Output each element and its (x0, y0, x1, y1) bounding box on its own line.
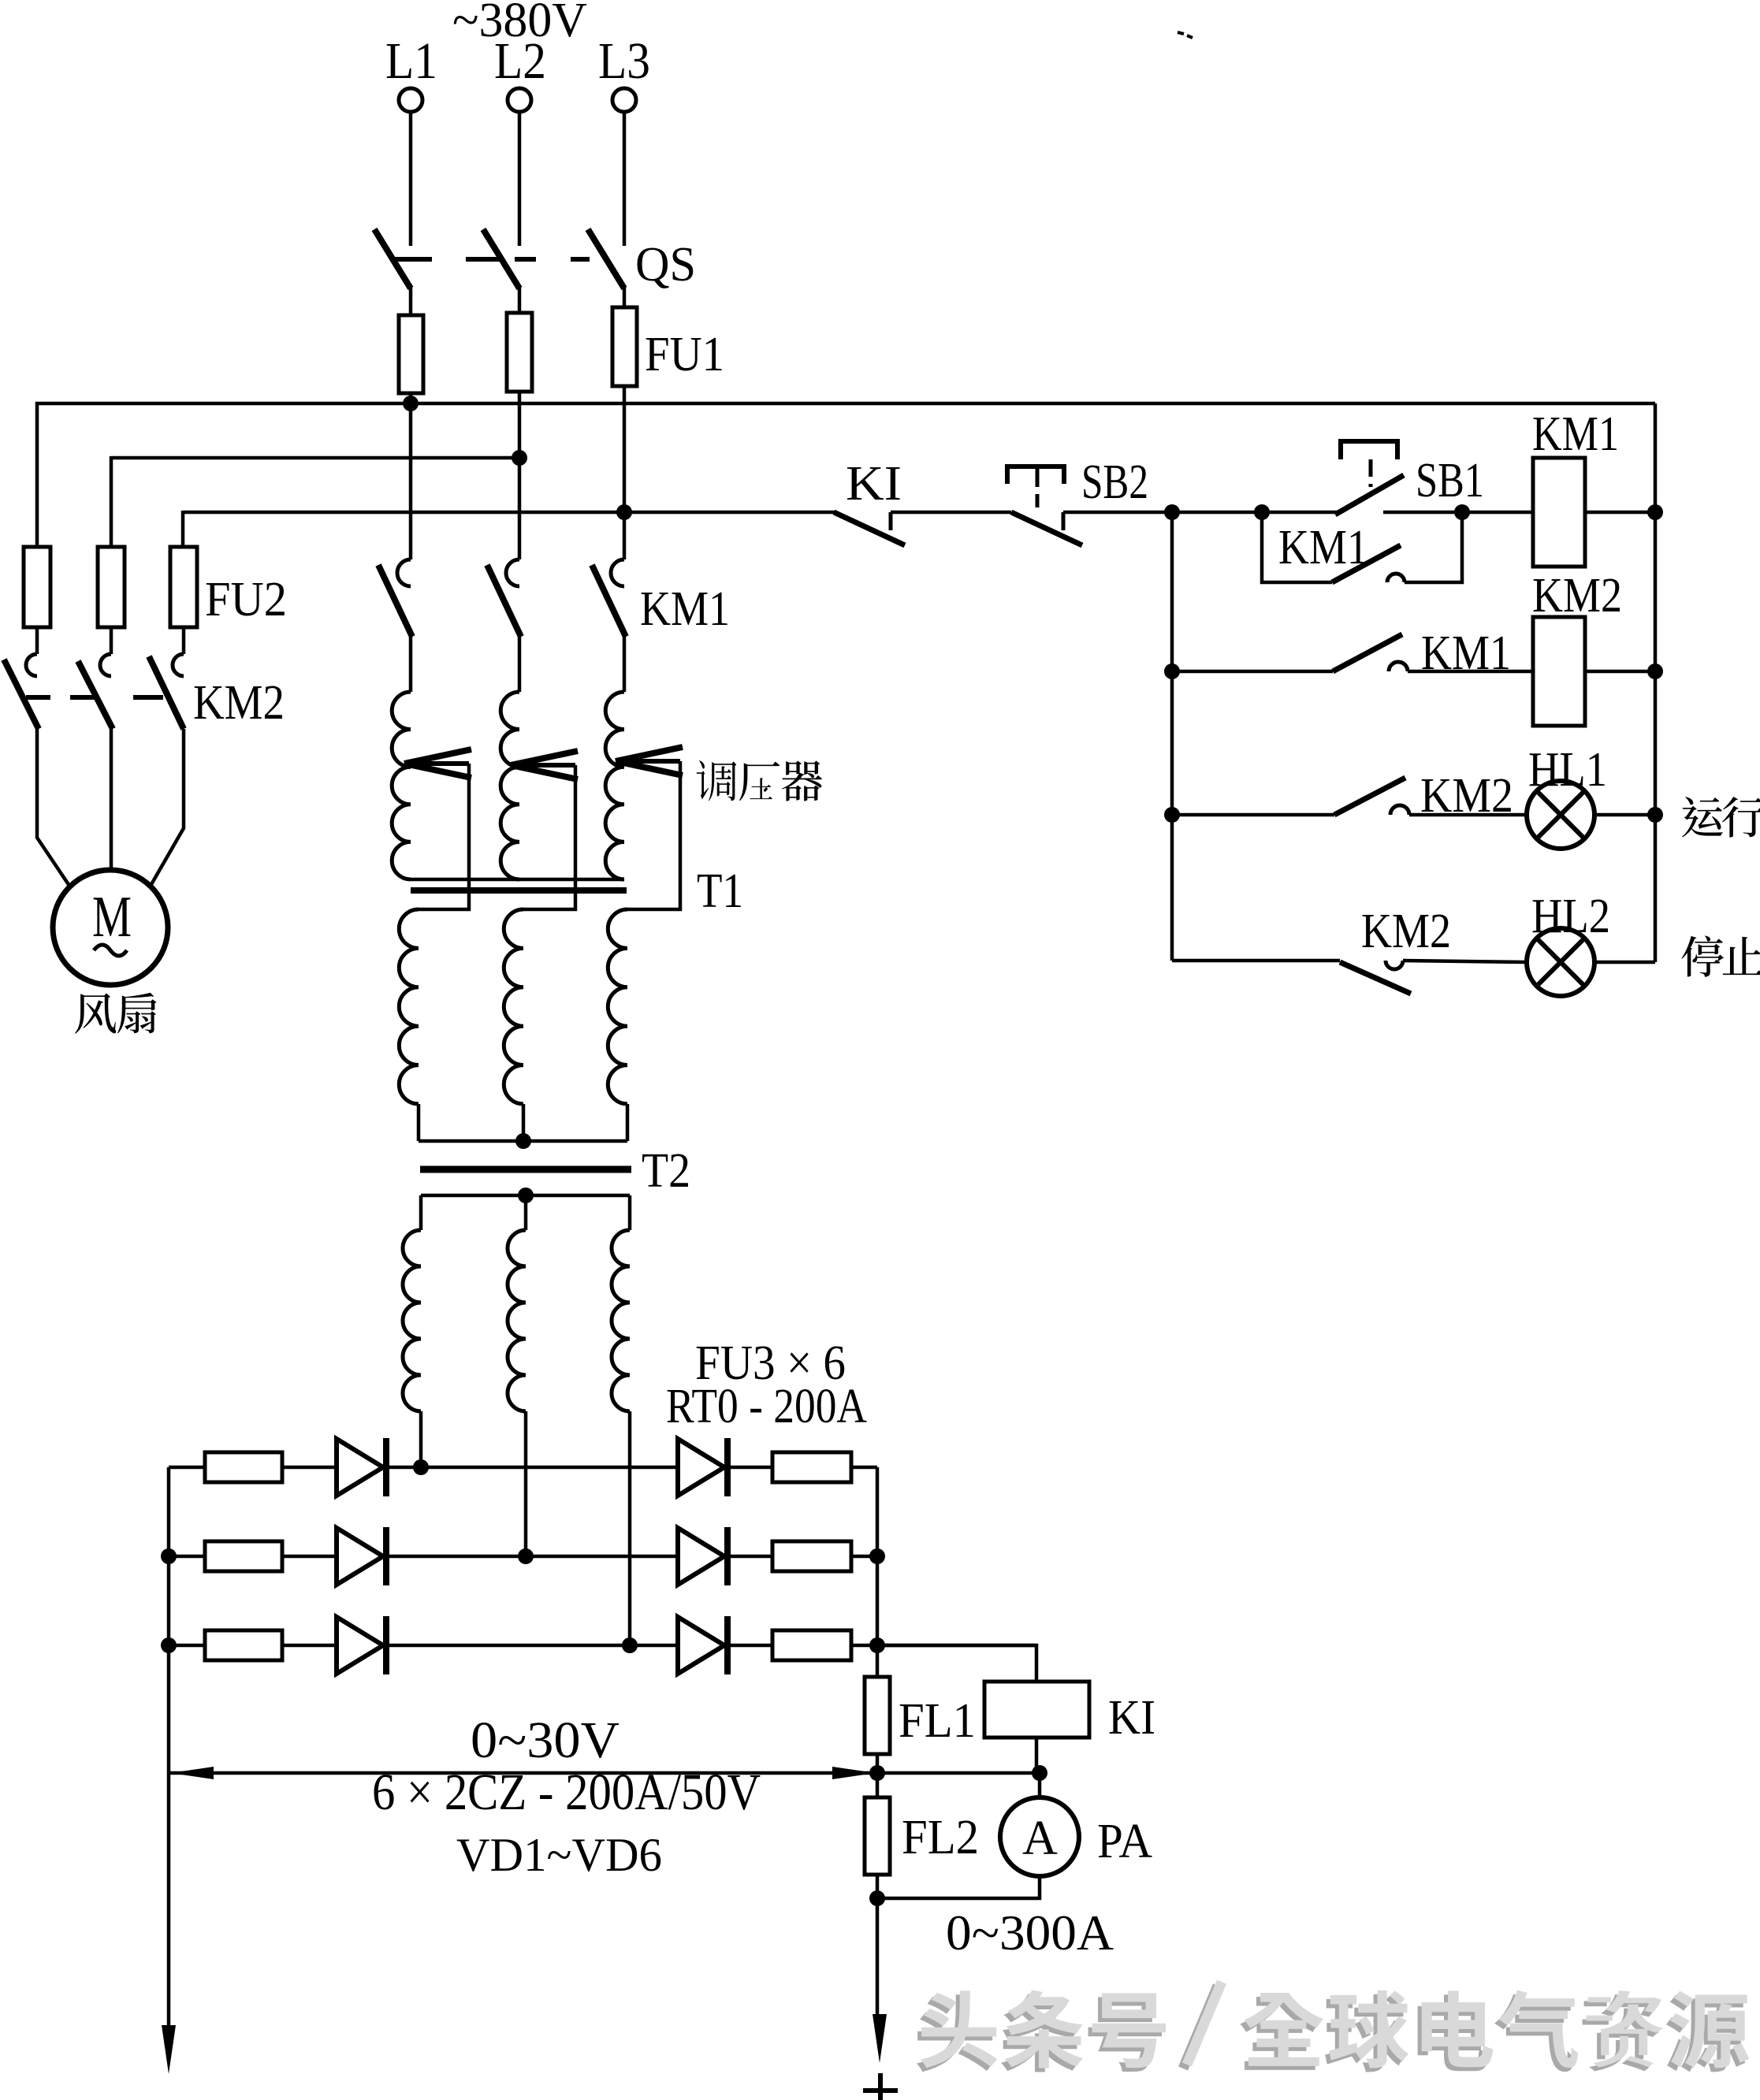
diode VD5 right (678, 1528, 724, 1585)
label 运行 run (1682, 797, 1723, 837)
contact KM2 pole1 hook (26, 654, 37, 676)
rung4: KM2 NC + HL2 (1172, 959, 1340, 963)
contact KM1 pole2 hook (506, 559, 519, 586)
rung2: KM1 NO contact + KM2 coil (1164, 663, 1180, 679)
linkage KM2 dashed (26, 695, 50, 700)
wire L1 drop (409, 112, 413, 246)
wire QS3 to FU1 (623, 285, 627, 307)
contact KM1 pole3 blade (592, 565, 626, 637)
svg-text:RT0 - 200A: RT0 - 200A (666, 1380, 867, 1433)
coil KM1 (1533, 458, 1585, 567)
svg-text:KM1: KM1 (1278, 521, 1368, 574)
svg-text:M: M (92, 885, 132, 950)
fuse FU1 pole2 (518, 313, 522, 392)
wire KM1 coil to right bus (1585, 511, 1655, 515)
T1 wiper drop 1 (419, 764, 469, 909)
diode VD1 left (337, 1439, 383, 1496)
T2 coil 1 (419, 1195, 423, 1230)
wire KM2-1 to motor (37, 729, 69, 886)
wire KM1-3 to T1 coil (623, 635, 627, 692)
contact KM2 pole3 blade (149, 656, 184, 729)
junction PA branch (1032, 1765, 1047, 1781)
label fan 风扇 (75, 994, 116, 1034)
contact KM2 pole2 blade (78, 661, 113, 729)
T1 secondary coil 1 (399, 909, 419, 1104)
wire SB1 to KM1 coil (1383, 511, 1533, 515)
svg-text:SB1: SB1 (1416, 454, 1484, 507)
diode VD4 right (678, 1439, 724, 1496)
lamp HL2 (1527, 928, 1594, 996)
svg-text:0~300A: 0~300A (946, 1905, 1114, 1961)
junction right bus rung2 (1647, 663, 1663, 679)
wire KI coil down (1035, 1738, 1039, 1773)
measure line 0~30V (169, 1771, 877, 1775)
fuse row 2 left (205, 1541, 282, 1571)
wire bus2 left drop to FU2-2 (110, 456, 113, 547)
svg-text:6 × 2CZ - 200A/50V: 6 × 2CZ - 200A/50V (372, 1764, 761, 1821)
label 停止 stop (1682, 935, 1725, 976)
rectifier row 2 wire (169, 1555, 877, 1559)
svg-text:FL2: FL2 (902, 1811, 979, 1864)
wire FL2 down (876, 1875, 880, 2027)
wire KM2-3 to motor (151, 729, 184, 886)
T1 wiper drop 2 (523, 765, 575, 909)
wire QS1 to FU1 (409, 285, 413, 315)
svg-text:VD1~VD6: VD1~VD6 (456, 1829, 662, 1881)
T2 secondary top bus (421, 1194, 630, 1198)
svg-text:L3: L3 (598, 32, 650, 90)
junction T2 top (518, 1188, 534, 1203)
coil KM2 (1533, 617, 1585, 726)
junction FL1/FL2 node (869, 1765, 885, 1781)
wire row3 to KI coil (877, 1645, 1036, 1682)
wire T2-2 to row2 (524, 1411, 528, 1556)
svg-text:FU2: FU2 (205, 573, 287, 626)
transformer T1 primary coil 3 (605, 692, 624, 879)
fuse FU2 pole2 (110, 547, 113, 654)
svg-text:KM1: KM1 (640, 582, 730, 636)
lamp HL1 (1527, 781, 1594, 849)
rung3: KM2 NO + HL1 (1164, 807, 1180, 823)
svg-text:KI: KI (846, 457, 902, 511)
wire SB2 to node (1063, 511, 1262, 515)
T1 primary common line (411, 878, 624, 882)
wire L2 column to KM1 (518, 392, 522, 559)
svg-text:QS: QS (635, 238, 696, 292)
junction row1/T2-1 (413, 1459, 429, 1475)
fuse row 1 right (772, 1452, 851, 1482)
T1 core (411, 887, 627, 894)
switch QS pole 2 blade (483, 229, 519, 288)
T1 secondary coil 2 (504, 909, 523, 1104)
fuse row 3 right (772, 1630, 851, 1660)
junction SB1 left (1254, 504, 1270, 520)
contact KM2 NC (rung4) (1340, 962, 1411, 994)
contact KM1 aux (self-hold) (1332, 545, 1401, 582)
contact KM1 pole2 blade (487, 565, 521, 637)
junction bus2/L2 column (512, 450, 527, 466)
switch QS pole 1 blade (374, 229, 411, 288)
diode VD2 left (337, 1528, 383, 1585)
wire ammeter bottom (877, 1876, 1040, 1898)
contact KM2 pole2 hook (100, 654, 111, 676)
svg-text:HL1: HL1 (1528, 743, 1607, 797)
wire bus L3 (183, 511, 835, 515)
wire T1 sec bottoms (417, 1104, 421, 1141)
junction bus1/L1 column (403, 396, 419, 411)
diode VD3 left (337, 1617, 383, 1674)
junction right bus row3 (869, 1637, 885, 1653)
junction row3/T2-3 (622, 1637, 638, 1653)
T1 wiper drop 3 (627, 761, 680, 909)
contact KM2 pole1 blade (4, 660, 39, 729)
T2 core (420, 1166, 631, 1173)
wire bus L2 (111, 456, 519, 460)
wire bus3 left drop to FU2-3 (181, 511, 185, 547)
svg-text:0~30V: 0~30V (471, 1712, 620, 1769)
contact KM1 NO (rung2) (1333, 634, 1402, 671)
switch QS linkage dashed (466, 257, 504, 262)
wire L3 drop (623, 112, 627, 246)
junction control left column (1164, 504, 1180, 520)
right bus vertical (1654, 403, 1658, 962)
T1 secondary coil 3 (608, 909, 627, 1104)
T2 coil 2 (524, 1195, 528, 1230)
wire QS2 to FU1 (518, 285, 522, 313)
watermark 头条号/全球电气资源 (917, 1994, 993, 2072)
svg-text:HL2: HL2 (1531, 890, 1610, 943)
wire node to PA branch (877, 1771, 1040, 1775)
transformer T1 primary coil 1 (392, 692, 411, 879)
switch QS pole 3 blade (588, 229, 624, 288)
wire KI to SB2 (891, 511, 1011, 515)
svg-text:KM2: KM2 (193, 676, 285, 730)
svg-text:KM1: KM1 (1532, 407, 1619, 461)
wire to ammeter (1038, 1773, 1042, 1797)
T1 wiper arrow 3 (616, 759, 680, 764)
svg-text:KI: KI (1108, 1691, 1155, 1745)
transformer T1 primary coil 2 (500, 692, 519, 879)
contact KM2 pole3 hook (173, 654, 184, 676)
wire L1 column to KM1 (409, 393, 413, 559)
junction left bus row2 (161, 1548, 177, 1564)
right DC bus arrow (873, 2014, 887, 2063)
wire self-hold right (1405, 512, 1462, 582)
contact KI overcurrent relay (834, 512, 905, 545)
wire L2 drop (518, 112, 522, 246)
right DC bus (876, 1467, 880, 1677)
svg-text:T2: T2 (642, 1144, 690, 1198)
fuse FU2 pole1 (35, 547, 39, 654)
contact KM2 NO (rung3) (1334, 778, 1405, 815)
junction right bus rung3 (1647, 807, 1663, 823)
scan speck (1178, 32, 1193, 38)
svg-text:A: A (1022, 1812, 1058, 1865)
ammeter PA (1000, 1797, 1079, 1876)
svg-text:L1: L1 (385, 32, 437, 90)
rectifier row 1 wire (169, 1466, 877, 1470)
svg-text:SB2: SB2 (1081, 455, 1148, 509)
wire KM1-2 to T1 coil (518, 635, 522, 692)
plus terminal (863, 2088, 898, 2093)
junction FL2/PA bottom (869, 1890, 885, 1906)
contact KM1 pole1 blade (378, 565, 412, 637)
wire L3 column to KM1 (623, 386, 627, 559)
svg-text:FL1: FL1 (899, 1694, 976, 1748)
junction right bus rung1 (1647, 504, 1663, 520)
svg-text:KM2: KM2 (1532, 569, 1622, 623)
fuse FL1 (865, 1677, 890, 1754)
T1 wiper arrow 2 (511, 763, 575, 768)
svg-text:T1: T1 (697, 864, 743, 918)
motor M fan (53, 870, 168, 985)
wire T2-1 to row1 (419, 1411, 423, 1467)
junction row2/T2-2 (518, 1548, 534, 1564)
fuse FL2 (876, 1773, 880, 1797)
svg-text:L2: L2 (494, 32, 546, 90)
left DC bus (167, 1467, 171, 2027)
fuse FU2 pole3 (182, 547, 186, 654)
fuse FU1 pole3 (623, 307, 627, 386)
button SB1 start (1341, 441, 1397, 459)
wire KM1-1 to T1 coil (409, 635, 413, 692)
T1 wiper arrow 1 (404, 761, 469, 766)
control left column wire (1170, 512, 1174, 961)
junction T1 bottom (515, 1133, 531, 1149)
T1 bottom bus (419, 1139, 627, 1143)
wire node to SB1 (1262, 511, 1338, 515)
wire T2-3 to row3 (628, 1411, 632, 1645)
relay coil KI (984, 1682, 1089, 1738)
rectifier row 3 wire (169, 1644, 1036, 1648)
fuse row 3 left (205, 1630, 282, 1660)
junction SB1 right (1454, 504, 1470, 520)
button SB2 stop (1007, 466, 1064, 484)
fuse FU1 pole1 (409, 315, 413, 393)
junction bus3/L3 column (616, 504, 632, 520)
svg-text:KM2: KM2 (1361, 905, 1451, 958)
diode VD6 right (678, 1617, 724, 1674)
T2 coil 3 (628, 1195, 632, 1230)
fuse row 2 right (772, 1541, 851, 1571)
svg-text:FU1: FU1 (645, 328, 724, 381)
contact KM1 pole3 hook (611, 559, 624, 586)
junction left bus row3 (161, 1637, 177, 1653)
wire FL1 to node (876, 1754, 880, 1773)
fuse row 1 left (205, 1452, 282, 1482)
switch QS pole 1 contact tick (394, 257, 432, 262)
wire bus1 left drop to FU2-1 (35, 402, 39, 547)
junction right bus row2 (869, 1548, 885, 1564)
wire KM2-2 to motor (110, 729, 113, 870)
svg-text:PA: PA (1097, 1815, 1152, 1868)
contact KM1 pole1 hook (397, 559, 411, 586)
KM1 self-holding contact branch (1262, 512, 1332, 582)
left DC bus arrow (162, 2025, 176, 2074)
wire bus L1 (top) (35, 402, 1655, 406)
label 调压器 regulator (697, 760, 737, 801)
